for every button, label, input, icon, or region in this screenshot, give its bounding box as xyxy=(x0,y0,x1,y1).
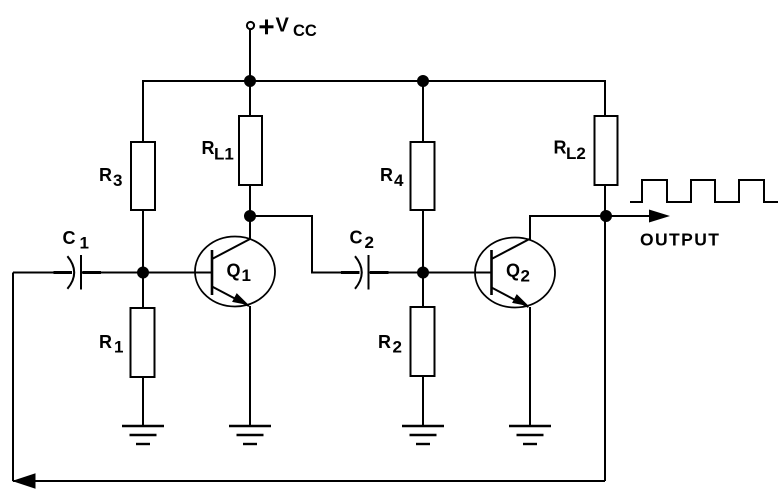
resistor R1 xyxy=(131,308,155,377)
label RL1 xyxy=(202,138,234,164)
wire rail drop to R3 xyxy=(142,80,144,142)
wire Q1 emitter to ground xyxy=(249,306,251,426)
resistor R2 xyxy=(411,307,435,376)
ground Q1 emitter xyxy=(229,426,271,444)
capacitor C2 xyxy=(341,255,389,290)
resistor R3 xyxy=(131,142,155,210)
svg-text:R: R xyxy=(554,138,567,158)
svg-text:C: C xyxy=(350,228,363,248)
resistor RL1 xyxy=(239,116,262,185)
resistor R4 xyxy=(411,142,435,210)
resistor RL2 xyxy=(595,116,618,185)
wire C2 to Q2 base xyxy=(370,272,492,274)
ground Q2 emitter xyxy=(509,426,551,444)
svg-text:OUTPUT: OUTPUT xyxy=(640,230,720,250)
label Q2 xyxy=(506,261,530,286)
output arrowhead xyxy=(649,210,670,223)
svg-text:2: 2 xyxy=(521,267,530,286)
ground R1 xyxy=(122,426,164,444)
output square wave xyxy=(630,180,778,202)
node base 1 xyxy=(138,268,148,278)
label R1 xyxy=(99,332,123,357)
ground R2 xyxy=(402,426,444,444)
svg-text:Q: Q xyxy=(227,261,241,281)
label R2 xyxy=(378,332,402,357)
svg-text:V: V xyxy=(276,15,290,37)
svg-text:R: R xyxy=(99,165,112,185)
wire rail drop to R4 xyxy=(422,81,424,142)
label R4 xyxy=(380,165,404,190)
svg-text:R: R xyxy=(380,165,393,185)
wire C1 to Q1 base xyxy=(82,272,212,274)
node Q1 collector xyxy=(245,211,255,221)
svg-text:2: 2 xyxy=(365,233,374,252)
svg-text:L2: L2 xyxy=(566,144,586,163)
wire feedback bottom xyxy=(13,480,605,482)
wire feedback to C1 xyxy=(13,272,66,274)
transistor Q1 xyxy=(195,237,275,307)
wire R3 bottom to base node 1 xyxy=(142,210,144,273)
wire rail drop to RL1 xyxy=(249,81,251,116)
svg-text:C: C xyxy=(63,228,76,248)
node rail-R4 junction xyxy=(418,76,428,86)
svg-text:1: 1 xyxy=(114,338,123,357)
node output xyxy=(601,211,611,221)
capacitor C1 xyxy=(54,255,102,290)
wire R1 bottom to ground xyxy=(142,377,144,426)
wire RL1 bottom to collector node xyxy=(249,185,251,216)
wire Vcc stub xyxy=(249,30,251,82)
svg-text:Q: Q xyxy=(506,261,520,281)
label R3 xyxy=(99,165,122,190)
svg-text:2: 2 xyxy=(393,338,402,357)
svg-text:1: 1 xyxy=(80,234,89,253)
wire feedback right drop xyxy=(604,216,606,481)
wire Q2 collector xyxy=(530,216,606,240)
svg-text:CC: CC xyxy=(293,22,317,40)
transistor Q2 xyxy=(475,238,555,308)
svg-text:L1: L1 xyxy=(214,145,234,164)
wire rail drop to RL2 xyxy=(604,80,606,116)
wire collector node to C2 xyxy=(250,216,355,273)
label Q1 xyxy=(227,261,251,286)
node Vcc rail junction xyxy=(245,76,255,86)
label RL2 xyxy=(554,138,586,164)
Vcc terminal circle xyxy=(247,22,254,29)
wire output arrow shaft xyxy=(606,215,650,217)
label +Vcc xyxy=(260,15,317,41)
svg-text:3: 3 xyxy=(113,171,122,190)
wire feedback left rise xyxy=(12,273,14,482)
wire Q2 emitter to ground xyxy=(529,307,531,426)
wire R2 bottom to ground xyxy=(422,376,424,426)
svg-text:1: 1 xyxy=(242,266,251,285)
wire R4 bottom to base node 2 xyxy=(422,210,424,273)
wire base node to R1 xyxy=(142,273,144,309)
label C2 xyxy=(350,228,374,253)
label C1 xyxy=(63,228,89,253)
wire RL2 bottom to output node xyxy=(604,185,606,216)
wire base node 2 to R2 xyxy=(422,273,424,308)
wire Q1 collector xyxy=(249,216,251,240)
feedback arrowhead xyxy=(12,473,36,488)
node base 2 xyxy=(418,268,428,278)
svg-text:R: R xyxy=(99,332,112,352)
svg-text:R: R xyxy=(202,138,215,158)
svg-text:4: 4 xyxy=(394,171,404,190)
wire top Vcc rail xyxy=(143,80,605,82)
svg-text:R: R xyxy=(378,332,391,352)
